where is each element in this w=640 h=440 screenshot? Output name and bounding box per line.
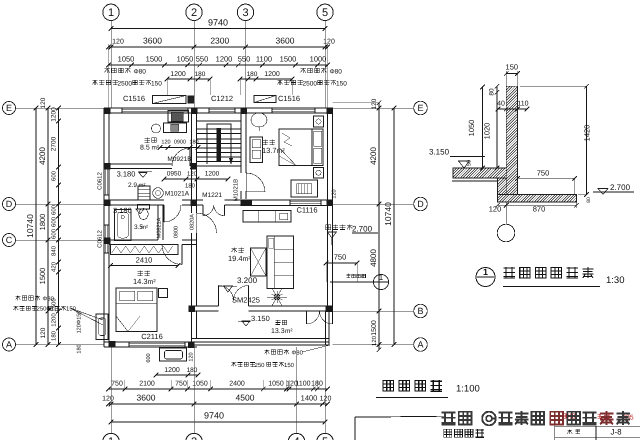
grid bubble 5 (top) (317, 4, 333, 107)
bedroom 14.3 bed (116, 288, 157, 332)
note AC sleeve top-right (277, 68, 347, 88)
AC platform below bottom wall (middle) (146, 348, 195, 363)
svg-text:600: 600 (51, 216, 58, 227)
svg-text:M0921B: M0921B (167, 156, 191, 163)
svg-text:2400: 2400 (229, 381, 245, 388)
svg-text:5: 5 (322, 436, 328, 440)
svg-text:120: 120 (187, 171, 198, 178)
wall D-right (bedroom south / C1116) (246, 189, 338, 214)
svg-text:1: 1 (483, 267, 488, 277)
sheet-below title 二层平面 (444, 429, 484, 438)
note AC sleeve bottom (balcony) (231, 345, 330, 369)
bedroom 13.7 round table (251, 113, 267, 131)
svg-text:1420: 1420 (583, 125, 592, 142)
study desk and chair (152, 111, 189, 134)
dimension 9740 (top overall) (109, 18, 328, 31)
svg-text:m²: m² (243, 256, 252, 263)
grid bubble 5 (bottom, clipped) (317, 347, 333, 440)
wall B (living room south) with balcony door SM2425 (192, 286, 328, 312)
bottom exterior wall (grid A) with window C2116 (104, 332, 197, 347)
study south wall (109, 164, 197, 169)
svg-text:Φ80: Φ80 (134, 69, 147, 76)
svg-text:5: 5 (322, 7, 328, 19)
WC basin (153, 188, 164, 199)
bedroom 14.3 wardrobe (108, 245, 180, 268)
grid bubble 2 (bottom, clipped) (186, 347, 202, 440)
svg-text:1500: 1500 (280, 55, 297, 64)
grid bubble 3 (top) (237, 4, 253, 107)
room label bedroom 13.7 (262, 139, 285, 155)
wall C (bedroom north) (109, 240, 197, 245)
svg-text:750: 750 (111, 381, 123, 388)
AC platform protruding left wall (bottom-left) (70, 308, 108, 340)
grid bubble C (left) (3, 234, 105, 247)
balcony railing (192, 311, 330, 345)
bedroom 13.7 nightstands (314, 116, 324, 178)
svg-text:1200: 1200 (264, 71, 280, 78)
svg-text:2.700: 2.700 (352, 225, 373, 234)
svg-text:E: E (417, 103, 423, 113)
svg-text:180: 180 (51, 330, 58, 341)
svg-text:4200: 4200 (369, 147, 378, 165)
room label bath 3.5 (134, 224, 148, 231)
detail dim 150 (top) (504, 63, 520, 87)
living room TV cabinet (north) (243, 211, 291, 223)
detail reference bubble 1 with leader (330, 273, 389, 290)
svg-text:m²: m² (141, 224, 148, 231)
svg-text:Φ80: Φ80 (43, 296, 55, 303)
level 3.150 (balcony) (238, 314, 270, 326)
svg-text:M1021A: M1021A (165, 191, 190, 198)
detail: outdoor slab (hatched) (490, 194, 583, 203)
AC platform above top wall right (254, 96, 276, 103)
svg-text:A: A (417, 340, 423, 350)
level 3.200 (living) (218, 276, 258, 292)
WC toilet (138, 205, 150, 220)
door 0820A in grid2 wall to living room (190, 213, 217, 233)
svg-text:870: 870 (533, 205, 546, 214)
note AC sleeve top-left (92, 68, 162, 88)
svg-text:1800: 1800 (38, 214, 47, 231)
svg-text:120: 120 (40, 97, 47, 108)
svg-text:120: 120 (161, 140, 170, 146)
door arcs at balcony right (307, 311, 333, 324)
svg-text:2700: 2700 (51, 136, 58, 151)
svg-text:40: 40 (497, 101, 505, 108)
dimension column 4200/1800/1500 (left) (38, 97, 50, 347)
window C0612 lower in left wall (97, 225, 110, 253)
svg-text:3.180: 3.180 (113, 206, 132, 215)
plan title 二层平面 1:100 (376, 380, 480, 397)
svg-text:120: 120 (112, 39, 124, 46)
detail: wall nib below indoor slab (hatched) (481, 177, 524, 195)
svg-text:120: 120 (323, 39, 335, 46)
level 3.180 (WC) (117, 170, 152, 179)
grid3 interior wall (stair east) (241, 113, 246, 199)
svg-text:2.9: 2.9 (128, 182, 137, 189)
svg-text:4500: 4500 (236, 393, 255, 403)
svg-text:m²: m² (285, 328, 293, 335)
sheet-below frame lines (355, 416, 446, 440)
AC platform above top wall left (153, 96, 187, 104)
living room west wall below D (191, 233, 193, 306)
grid bubble A (left) (3, 338, 105, 351)
svg-text:1: 1 (379, 273, 384, 282)
svg-text:D: D (417, 199, 424, 209)
svg-text:9740: 9740 (204, 411, 224, 421)
svg-text:1200: 1200 (51, 313, 58, 327)
svg-text:3.200: 3.200 (237, 276, 258, 285)
svg-text:1050: 1050 (192, 381, 208, 388)
detail dim 1020 (483, 90, 500, 170)
svg-text:2: 2 (191, 7, 197, 19)
svg-text:C1212: C1212 (211, 94, 233, 103)
dims 1200/180 below wall (154, 367, 201, 377)
svg-text:180: 180 (77, 344, 83, 353)
detail dim 1420 (520, 84, 592, 197)
bedroom 13.7 bench (291, 180, 318, 197)
svg-text:120: 120 (40, 327, 47, 338)
svg-text:150: 150 (506, 63, 519, 72)
svg-text:13.3: 13.3 (271, 328, 285, 335)
svg-text:1050: 1050 (118, 55, 135, 64)
window C1516 in top wall (left) (122, 108, 188, 113)
grid2 interior wall (stair west) (192, 113, 197, 306)
svg-text:SM2425: SM2425 (232, 296, 260, 305)
svg-text:1: 1 (108, 436, 114, 440)
svg-text:m²: m² (148, 279, 157, 286)
grid bubble 1 (bottom, clipped) (103, 347, 119, 440)
window C1212 in top wall (middle) (209, 108, 235, 113)
svg-text:2500: 2500 (118, 81, 133, 88)
wall D-left (hall south) (109, 200, 192, 205)
svg-text:M1021B: M1021B (233, 179, 240, 201)
detail: railing wall (hatched) (398, 85, 627, 195)
svg-text:A: A (6, 340, 12, 350)
svg-text:13.7: 13.7 (262, 146, 277, 155)
svg-text:C: C (6, 235, 13, 245)
svg-text:550: 550 (238, 55, 251, 64)
bedroom 13.7 desk seat (250, 137, 263, 163)
svg-text:1500: 1500 (38, 268, 47, 285)
door M1021A (WC hall) (164, 191, 190, 223)
svg-text:150: 150 (151, 81, 162, 88)
svg-text:1100: 1100 (295, 381, 310, 388)
detail title: bubble 1 + text 阳台栏板详图 1:30 (476, 267, 625, 287)
flue block at top wall near grid 2 (188, 96, 194, 103)
svg-text:180: 180 (185, 183, 196, 190)
svg-text:600: 600 (51, 170, 58, 181)
room label balcony 13.3 (271, 320, 293, 335)
svg-text:120: 120 (189, 352, 195, 361)
detail bottom dims 120/870 (489, 202, 579, 214)
svg-text:C1516: C1516 (123, 94, 145, 103)
grid bubble 4 (bottom, clipped) (288, 347, 304, 440)
svg-text:750: 750 (334, 253, 347, 262)
WC washing machine (138, 186, 150, 200)
grid bubble D (left) (3, 198, 105, 211)
svg-text:120: 120 (320, 396, 332, 403)
bath east wall with door M0821A (157, 205, 164, 240)
stair (197, 121, 241, 166)
wall D middle (stair hall south) with door M1221 (197, 192, 242, 216)
svg-text:600: 600 (146, 353, 152, 362)
svg-text:8.5: 8.5 (140, 145, 150, 152)
dimension 10740 (left overall) (25, 106, 38, 347)
svg-text:C2116: C2116 (141, 332, 163, 341)
top exterior wall (grid E) (104, 108, 333, 113)
svg-text:B: B (417, 306, 423, 316)
svg-text:m²: m² (152, 145, 160, 152)
dimension row 750/2100/750/1050/2400/1050/120/1100/180 (bottom) (106, 380, 330, 391)
bedroom 13.7 bed (279, 129, 323, 166)
svg-text:1: 1 (108, 7, 114, 19)
svg-text:50: 50 (467, 160, 473, 166)
svg-text:80: 80 (489, 88, 496, 96)
grid bubble 1 (top) (103, 4, 119, 107)
svg-text:E: E (6, 103, 12, 113)
room label living 19.4 (228, 247, 251, 263)
sheet-below title block (555, 413, 640, 440)
svg-text:m²: m² (277, 148, 286, 155)
room label study 8.5 (140, 137, 160, 151)
svg-text:3.180: 3.180 (117, 170, 136, 179)
room label WC 2.9 (128, 182, 146, 189)
window C0612 upper in left wall (97, 167, 110, 195)
svg-text:180: 180 (247, 71, 258, 78)
dims 120/150/180 rotated (left bottom) (77, 311, 83, 354)
svg-text:1:30: 1:30 (606, 275, 625, 286)
dimension 750 (balcony overhang) (324, 253, 360, 283)
svg-text:250: 250 (255, 362, 266, 369)
svg-text:3.150: 3.150 (429, 148, 450, 157)
svg-text:420: 420 (51, 261, 58, 272)
svg-text:180: 180 (189, 140, 198, 146)
grid bubble 2 (top) (186, 4, 202, 107)
svg-text:C1116: C1116 (297, 206, 318, 215)
svg-text:180: 180 (195, 71, 206, 78)
svg-text:1050: 1050 (467, 120, 476, 137)
dimension row 120/3600/2300/3600/120 (top) (106, 36, 335, 108)
svg-text:150: 150 (284, 362, 295, 369)
svg-text:150: 150 (336, 81, 347, 88)
svg-text:M0821A: M0821A (157, 217, 163, 238)
note slab level 2.700 (balcony) (326, 224, 378, 245)
window position dims 1200/180 (top left) (165, 71, 213, 95)
svg-text:550: 550 (196, 55, 209, 64)
svg-text:120: 120 (489, 205, 502, 214)
svg-text:9740: 9740 (208, 18, 228, 28)
svg-text:2100: 2100 (139, 381, 155, 388)
svg-text:1050: 1050 (268, 381, 284, 388)
svg-text:10740: 10740 (25, 214, 35, 238)
svg-text:1500: 1500 (146, 55, 163, 64)
svg-text:2.700: 2.700 (610, 183, 631, 192)
svg-text:180: 180 (187, 367, 198, 374)
svg-text:1050: 1050 (177, 55, 194, 64)
detail: indoor slab (hatched) (443, 167, 517, 181)
grid bubble B (right) (333, 304, 428, 318)
detail column axis circle (497, 202, 515, 242)
svg-text:C0612: C0612 (97, 172, 104, 190)
svg-text:19.4: 19.4 (228, 254, 243, 263)
grid bubble E (left) (3, 102, 105, 115)
svg-text:1100: 1100 (256, 55, 272, 64)
dimension column 120/4200/4800/1500/120 (right) (333, 98, 382, 352)
svg-text:1200: 1200 (216, 55, 233, 64)
structural columns (filled) (104, 108, 333, 348)
svg-text:600: 600 (51, 204, 58, 215)
svg-text:750: 750 (537, 169, 550, 178)
detail dim 750 (515, 169, 577, 195)
living room rug / TV stand with cross (251, 248, 267, 276)
svg-text:M1221: M1221 (202, 192, 222, 199)
svg-text:4800: 4800 (369, 249, 378, 267)
svg-text:Φ80: Φ80 (292, 350, 304, 357)
svg-text:120: 120 (371, 98, 378, 109)
svg-text:80: 80 (586, 197, 592, 203)
svg-text:1200: 1200 (170, 71, 186, 78)
svg-text:2300: 2300 (210, 36, 229, 46)
svg-text:m²: m² (139, 182, 146, 189)
svg-text:1:100: 1:100 (456, 384, 480, 395)
room label bedroom 14.3 (133, 270, 156, 286)
svg-text:1000: 1000 (310, 55, 327, 64)
level 3.180 (bath) (113, 206, 144, 215)
living room sofa (267, 236, 294, 289)
dimension 9740 (bottom overall) (109, 411, 328, 425)
svg-text:2: 2 (191, 436, 197, 440)
interior dim 120/0900/180 (study) (158, 140, 201, 150)
svg-text:3600: 3600 (137, 393, 156, 403)
svg-text:0800: 0800 (174, 226, 180, 238)
svg-text:1020: 1020 (483, 123, 492, 140)
svg-text:C1516: C1516 (278, 94, 300, 103)
svg-text:1500: 1500 (371, 320, 378, 336)
dimension row 1050/1500/1050/550/1200/550/1100/1500/1000 (top) (106, 55, 330, 68)
svg-text:120: 120 (102, 396, 114, 403)
door M1021B to bedroom 13.7 (233, 173, 266, 201)
svg-text:0950: 0950 (167, 171, 182, 178)
grid bubble A (right) (333, 338, 428, 352)
svg-text:1400: 1400 (301, 394, 318, 403)
door to bedroom 14.3 (162, 245, 182, 265)
svg-text:14.3: 14.3 (133, 277, 148, 286)
grid bubble E (right) (333, 101, 428, 115)
svg-text:120: 120 (332, 189, 338, 198)
svg-text:J-8: J-8 (610, 428, 622, 437)
svg-text:1200: 1200 (164, 367, 180, 374)
living room plant (267, 288, 287, 305)
svg-text:1200: 1200 (205, 171, 220, 178)
interior dim 0950/120/1200 (hall) (162, 171, 231, 190)
note AC sleeve bottom-left (13, 295, 103, 320)
dimension 10740 (right overall) (383, 106, 396, 347)
window C1516 in top wall (right) (272, 108, 315, 113)
detail dims 40/110 (496, 101, 530, 112)
svg-text:150: 150 (66, 306, 77, 313)
left exterior wall (104, 108, 109, 347)
svg-text:120: 120 (371, 335, 378, 346)
svg-text:3600: 3600 (143, 36, 162, 46)
detail dim 80 (489, 84, 500, 96)
detail level 2.700 (586, 183, 634, 203)
svg-text:2500: 2500 (303, 81, 318, 88)
svg-text:C0612: C0612 (97, 230, 104, 248)
bath tub (115, 210, 132, 241)
svg-text:750: 750 (175, 381, 187, 388)
detail level 3.150 (429, 148, 485, 169)
svg-text:10740: 10740 (383, 202, 393, 226)
detail dim 1050 (467, 85, 485, 171)
svg-text:0820A: 0820A (190, 214, 196, 230)
svg-text:3600: 3600 (276, 36, 295, 46)
door M0921B (study) (167, 148, 191, 166)
svg-text:0900: 0900 (174, 140, 186, 146)
bedroom 14.3 nightstand (159, 289, 168, 298)
grid bubble D (right) (333, 197, 428, 211)
svg-text:600: 600 (51, 228, 58, 239)
svg-text:4: 4 (293, 436, 299, 440)
right exterior wall (grid 5) (328, 108, 333, 311)
svg-text:2410: 2410 (136, 256, 153, 265)
svg-text:4200: 4200 (38, 147, 47, 165)
dimension row 120/3600/4500/1400/120 (bottom) (102, 393, 331, 407)
svg-text:1200: 1200 (51, 107, 58, 122)
window position dims 180/1200 (top right) (238, 71, 295, 95)
dimension column fine splits (left) (51, 106, 61, 347)
svg-text:840: 840 (51, 245, 58, 256)
svg-text:Φ80: Φ80 (330, 69, 343, 76)
svg-text:110: 110 (517, 101, 528, 108)
svg-text:3.150: 3.150 (251, 314, 270, 323)
svg-text:3: 3 (242, 7, 248, 19)
svg-text:D: D (6, 199, 13, 209)
watermark 头条@农村大美关心农村事 (442, 411, 630, 425)
